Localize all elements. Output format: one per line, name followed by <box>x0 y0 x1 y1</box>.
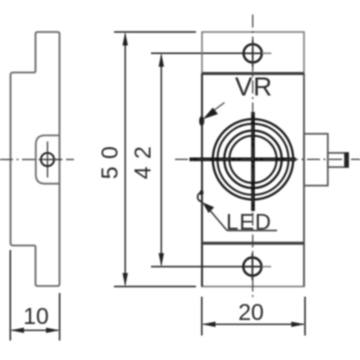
front view body outline <box>202 32 304 287</box>
front view right edge <box>303 74 305 287</box>
dimension 42 arrow top <box>159 53 164 67</box>
dimension 20 arrow right <box>291 322 305 327</box>
VR leader arrowhead <box>203 108 218 120</box>
LED leader arrowhead <box>202 202 214 213</box>
side view body outline <box>11 32 60 286</box>
VR leader line <box>211 103 225 113</box>
dimension 50 arrow top <box>123 32 128 46</box>
LED bump on left edge <box>198 192 203 201</box>
lens crosshair vertical <box>251 112 255 211</box>
LED leader underline <box>227 230 277 232</box>
side view mounting ear <box>36 135 60 183</box>
dimension 10 extension line left <box>9 250 11 341</box>
connector nipple <box>328 153 348 167</box>
front view horizontal centerline <box>175 158 360 160</box>
front view bottom hole crosshair ticks <box>251 253 253 280</box>
side view ear hole vertical crosshair <box>47 142 49 178</box>
front view left edge <box>201 74 203 287</box>
VR bump on left edge <box>199 116 204 126</box>
side view ear hole <box>41 153 54 166</box>
dimension 10 extension line right <box>59 293 61 341</box>
front view bottom separator <box>202 242 304 245</box>
dimension 42 bottom extension line <box>151 266 243 268</box>
side view ear hole horizontal crosshair <box>41 159 62 161</box>
svg-text:VR: VR <box>235 72 273 102</box>
dimension 20 arrow left <box>202 322 216 327</box>
svg-text:42: 42 <box>130 139 156 180</box>
dimension 10 line <box>12 329 58 331</box>
lens outer ring inner circle <box>218 124 289 195</box>
lens inner ring outer circle <box>224 131 281 188</box>
LED bump shade <box>200 190 204 195</box>
svg-text:LED: LED <box>226 210 272 235</box>
front view top separator <box>202 72 304 75</box>
lens crosshair horizontal <box>190 158 297 162</box>
dimension 42 arrow bottom <box>159 253 164 267</box>
front view bottom hole <box>243 258 261 276</box>
dimension 42 top extension line <box>151 52 244 54</box>
dimension 20 extension line right <box>304 297 306 336</box>
svg-text:20: 20 <box>238 299 264 325</box>
svg-text:10: 10 <box>23 303 49 329</box>
front view top hole <box>244 44 262 62</box>
lens outer ring outer circle <box>213 119 293 199</box>
dimension 50 arrow bottom <box>123 273 128 287</box>
dimension 50 bottom extension line <box>114 286 196 288</box>
front view top hole crosshair ticks <box>252 40 254 67</box>
dimension 50 line <box>124 34 126 285</box>
dimension 10 arrow right <box>46 328 60 333</box>
svg-text:50: 50 <box>97 139 123 180</box>
connector block <box>304 134 328 186</box>
dimension 42 line <box>160 55 162 264</box>
connector nipple end cap <box>344 153 348 168</box>
lens inner ring inner circle <box>229 136 276 183</box>
front view vertical centerline <box>252 15 254 299</box>
side view horizontal centerline <box>0 159 74 161</box>
dimension 20 extension line left <box>201 297 203 336</box>
LED leader diagonal line <box>208 208 227 231</box>
dimension 10 arrow left <box>10 328 24 333</box>
dimension 50 top extension line <box>114 31 196 33</box>
dimension 20 line <box>204 323 304 325</box>
